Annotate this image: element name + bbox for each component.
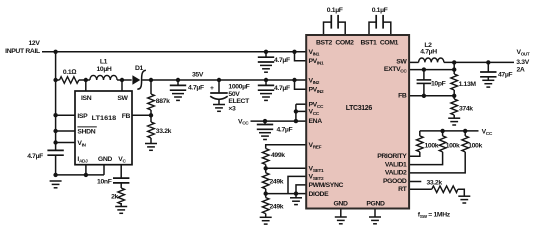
svg-text:SHDN: SHDN [77, 128, 95, 135]
svg-text:10µH: 10µH [97, 66, 112, 73]
svg-text:4.7µF: 4.7µF [274, 85, 290, 92]
svg-text:L1: L1 [100, 59, 108, 66]
svg-text:2k: 2k [111, 193, 118, 200]
svg-text:4.7µF: 4.7µF [27, 153, 43, 160]
svg-text:BST1: BST1 [361, 40, 378, 47]
svg-text:GND: GND [333, 201, 347, 208]
svg-text:FB: FB [122, 113, 131, 120]
svg-text:INPUT RAIL: INPUT RAIL [5, 48, 40, 55]
svg-text:FB: FB [398, 93, 407, 100]
svg-text:SW: SW [117, 95, 128, 102]
svg-text:887k: 887k [156, 98, 170, 105]
svg-text:COM2: COM2 [335, 40, 354, 47]
svg-text:1.13M: 1.13M [459, 81, 477, 88]
svg-text:GND: GND [98, 156, 112, 163]
svg-text:PGND: PGND [366, 201, 385, 208]
svg-text:D1: D1 [135, 65, 144, 72]
svg-text:4.7µF: 4.7µF [277, 126, 293, 133]
svg-text:PWM/SYNC: PWM/SYNC [309, 182, 344, 189]
svg-text:ENA: ENA [309, 118, 323, 125]
svg-text:33.2k: 33.2k [156, 128, 172, 135]
svg-text:47µF: 47µF [498, 72, 512, 79]
svg-text:374k: 374k [459, 106, 473, 113]
svg-text:COM1: COM1 [380, 40, 399, 47]
svg-text:0.1µF: 0.1µF [372, 7, 388, 14]
svg-text:35V: 35V [192, 71, 204, 78]
svg-text:10pF: 10pF [431, 81, 446, 88]
svg-text:100k: 100k [468, 142, 482, 149]
svg-text:×3: ×3 [228, 105, 236, 112]
svg-text:0.1Ω: 0.1Ω [63, 69, 76, 76]
svg-text:4.7µH: 4.7µH [420, 49, 437, 56]
svg-text:LT1618: LT1618 [92, 115, 117, 122]
svg-text:12V: 12V [28, 40, 40, 47]
svg-text:PGOOD: PGOOD [383, 178, 407, 185]
svg-text:LTC3126: LTC3126 [346, 105, 373, 112]
svg-text:SW: SW [396, 59, 407, 66]
svg-text:50V: 50V [228, 91, 240, 98]
svg-text:10nF: 10nF [97, 178, 112, 185]
svg-text:4.7µF: 4.7µF [274, 57, 290, 64]
svg-text:DIODE: DIODE [309, 191, 330, 198]
svg-text:VALID1: VALID1 [385, 161, 407, 168]
svg-text:100k: 100k [446, 142, 460, 149]
svg-text:ISN: ISN [81, 95, 92, 102]
svg-text:PRIORITY: PRIORITY [377, 153, 407, 160]
svg-text:VALID2: VALID2 [385, 170, 407, 177]
svg-text:499k: 499k [271, 152, 285, 159]
svg-text:RT: RT [398, 186, 408, 193]
svg-text:ELECT: ELECT [228, 98, 250, 105]
svg-text:1000µF: 1000µF [228, 84, 249, 91]
svg-text:3.3V: 3.3V [516, 59, 529, 66]
svg-text:2A: 2A [517, 67, 525, 74]
svg-text:ISP: ISP [77, 113, 88, 120]
svg-text:249k: 249k [270, 179, 284, 186]
svg-text:BST2: BST2 [316, 40, 333, 47]
svg-text:4.7µF: 4.7µF [188, 85, 204, 92]
svg-text:249k: 249k [270, 203, 284, 210]
svg-text:+: + [210, 85, 214, 92]
svg-text:0.1µF: 0.1µF [327, 7, 343, 14]
svg-text:100k: 100k [425, 142, 439, 149]
